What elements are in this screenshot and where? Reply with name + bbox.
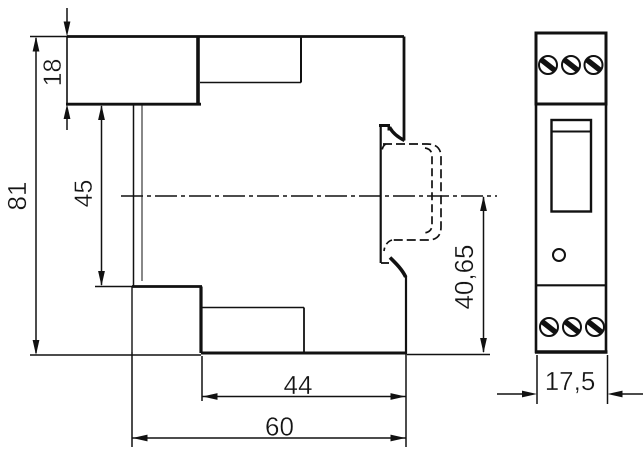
- side view: DIN notch bottom hook curve: [390, 258, 406, 278]
- side view: upper-left terminal block bottom edge: [66, 103, 201, 106]
- side view: DIN notch bottom step: [381, 262, 389, 264]
- DIN clip dashed bottom-left curl: [384, 240, 392, 251]
- dim 44: left extension line: [201, 356, 203, 401]
- dim 17,5: right extension line: [607, 355, 609, 404]
- side view: right edge lower segment: [405, 276, 407, 353]
- dim 44: right arrow: [391, 393, 406, 400]
- side view: top extension line to 81 dim: [30, 36, 67, 38]
- dim 81: dimension line with arrows: [35, 38, 37, 353]
- side view: left face line outer: [133, 104, 135, 286]
- dim 17,5: right tail line and arrow: [621, 393, 643, 395]
- side view: lower recess right edge: [303, 308, 305, 354]
- side view: DIN notch back wall: [380, 124, 382, 263]
- side view: lower recess top edge: [202, 307, 304, 309]
- dim 40,65: bottom arrow: [480, 338, 487, 353]
- side view: top edge of housing: [67, 35, 404, 38]
- front view: outer body outline: [536, 33, 606, 352]
- dim 60: left arrow: [133, 435, 148, 442]
- svg-text:45: 45: [70, 180, 98, 208]
- dim 60: right arrow: [391, 435, 406, 442]
- DIN clip dashed inner wall: [424, 148, 432, 233]
- dim 40,65: top arrow: [480, 196, 487, 211]
- dim 45: top arrow: [98, 105, 105, 120]
- side view: upper recess bottom edge: [200, 82, 301, 84]
- front view: window outline: [552, 120, 592, 212]
- svg-text:18: 18: [39, 59, 67, 87]
- dim 45: bottom arrow: [98, 271, 105, 286]
- front view: lower screw 3: [586, 318, 604, 336]
- side view: left face line inner: [141, 104, 143, 281]
- DIN clip dashed top-left curl: [382, 144, 386, 152]
- dim 17,5: left extension line: [536, 355, 538, 404]
- dim 40,65: extension line: [407, 354, 490, 356]
- side view: upper-left terminal block left edge: [66, 37, 68, 105]
- side view: DIN notch top hook curve: [390, 127, 405, 141]
- front view: lower terminal block top line: [536, 284, 606, 286]
- front view: upper screw 2: [562, 56, 580, 74]
- side view: DIN notch top tab: [379, 124, 390, 127]
- front view: upper screw 1: [539, 56, 557, 74]
- side view: lower-left terminal block left edge: [131, 287, 133, 353]
- front view: upper terminal block outline: [536, 33, 606, 104]
- dim 17,5: left tail line and arrow: [497, 393, 524, 395]
- dim 45: dimension line: [101, 106, 103, 285]
- centerline dash-dot: [121, 195, 497, 197]
- dim 81: top arrow: [33, 37, 40, 52]
- side view: DIN notch top tab slot wall: [388, 125, 390, 131]
- dim 81: bottom arrow: [33, 340, 40, 355]
- dim 18: lower tail line and arrow: [66, 118, 68, 130]
- dim 81: bottom extension line: [30, 354, 201, 356]
- dim 60: left extension line: [131, 352, 133, 447]
- DIN clip dashed outer outline: [383, 144, 441, 240]
- front view: upper screw 3: [585, 56, 603, 74]
- front view: indicator circle: [553, 249, 565, 261]
- dim 60: dimension line: [133, 437, 406, 439]
- svg-text:40,65: 40,65: [449, 244, 479, 309]
- svg-text:60: 60: [265, 412, 294, 442]
- front view: window header line: [552, 131, 592, 133]
- side view: lower-left terminal block right edge: [199, 287, 202, 354]
- front view: lower screw 1: [540, 318, 558, 336]
- front view: bottom edge thick: [535, 350, 608, 353]
- dim 40,65: dimension line: [483, 197, 485, 352]
- side view: right edge upper segment: [403, 37, 406, 141]
- dim 45: extension line: [95, 286, 132, 288]
- side view: lower-left terminal block top edge: [132, 285, 202, 288]
- side view: upper-left terminal block right edge: [196, 37, 200, 105]
- svg-text:44: 44: [284, 370, 313, 400]
- dim 60: right extension line: [405, 353, 407, 447]
- dim 18: upper tail line and arrow: [66, 8, 68, 22]
- dim 44: left arrow: [203, 393, 218, 400]
- side view: upper recess right edge: [300, 37, 302, 83]
- dim 44: dimension line: [203, 396, 406, 398]
- side view: bottom edge: [201, 352, 407, 355]
- front view: lower screw 2: [563, 318, 581, 336]
- svg-text:17,5: 17,5: [545, 366, 596, 396]
- svg-text:81: 81: [2, 182, 32, 211]
